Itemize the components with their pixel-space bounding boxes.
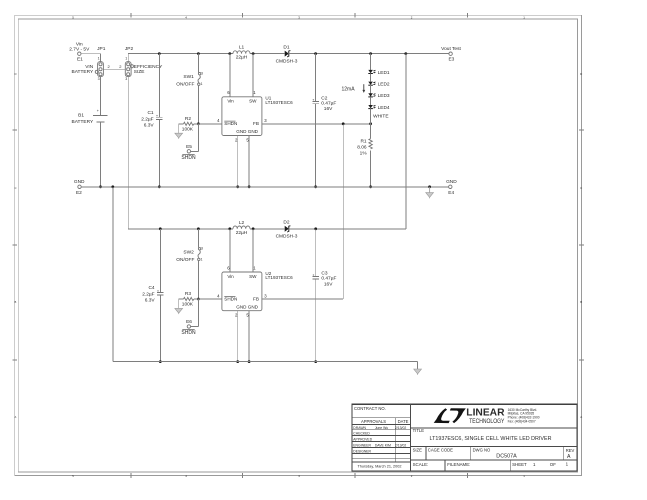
resistor R3 100K: [179, 291, 199, 308]
wire U2 SW pin1: [252, 229, 254, 272]
wire JP1 pin2 to JP2 pin2: [103, 64, 125, 69]
svg-text:SHDN: SHDN: [181, 155, 196, 161]
svg-text:SW1: SW1: [183, 74, 194, 80]
ground arrow below R3: [175, 299, 183, 314]
inductor L2 22uH: [233, 220, 250, 236]
svg-text:E1: E1: [77, 56, 83, 62]
svg-text:R1: R1: [360, 139, 366, 145]
svg-text:LED3: LED3: [378, 93, 390, 99]
svg-text:16V: 16V: [324, 281, 333, 287]
svg-text:SHDN: SHDN: [224, 296, 237, 301]
capacitor C4 2.2uF: [142, 285, 163, 303]
svg-text:LED2: LED2: [378, 82, 390, 88]
svg-text:1: 1: [201, 257, 203, 261]
svg-text:Fax: (408)434-0507: Fax: (408)434-0507: [508, 419, 536, 423]
svg-text:ON/OFF: ON/OFF: [176, 257, 194, 263]
svg-text:C3: C3: [321, 271, 327, 277]
wire gnd tie upper to lower: [112, 187, 114, 362]
svg-text:22µH: 22µH: [236, 55, 248, 61]
svg-text:GND: GND: [248, 129, 259, 134]
wire LED3-LED4: [370, 97, 372, 105]
wire L1 to D1: [250, 52, 285, 55]
wire SW2 branch top: [197, 229, 199, 248]
svg-text:SHDN: SHDN: [181, 330, 196, 336]
wire SW1 to R2 junction: [197, 85, 200, 125]
svg-text:GND: GND: [446, 179, 457, 185]
node E1 Vin terminal: [69, 41, 90, 62]
svg-text:3: 3: [201, 71, 203, 75]
wire LED2-LED3: [370, 85, 372, 93]
capacitor C2 0.47uF: [312, 95, 336, 112]
svg-text:B: B: [580, 300, 582, 304]
svg-text:L1: L1: [239, 45, 245, 51]
svg-text:D1: D1: [283, 44, 289, 50]
svg-text:JP2: JP2: [125, 46, 134, 52]
LED1: [368, 70, 390, 76]
wire U2 pin2 to gnd: [236, 311, 239, 363]
svg-text:CMDSH-3: CMDSH-3: [276, 59, 298, 65]
svg-text:3: 3: [201, 247, 203, 251]
svg-text:1: 1: [98, 56, 100, 60]
svg-text:GND: GND: [248, 304, 259, 309]
switch SW2 ON/OFF: [176, 247, 203, 263]
svg-text:C: C: [14, 186, 16, 190]
svg-text:TECHNOLOGY: TECHNOLOGY: [469, 418, 505, 425]
svg-text:SHDN: SHDN: [224, 121, 237, 126]
svg-text:2.2µF: 2.2µF: [142, 292, 154, 298]
svg-text:LT1937ESC6: LT1937ESC6: [265, 100, 293, 105]
wire L2 to D2: [250, 227, 285, 230]
wire lower gnd rail: [113, 361, 418, 363]
wire SW1 branch top: [197, 54, 199, 73]
svg-text:A: A: [567, 454, 571, 460]
svg-text:CHECKED: CHECKED: [353, 432, 370, 436]
svg-text:2/13/02: 2/13/02: [395, 426, 406, 430]
svg-text:ENGINEER: ENGINEER: [353, 444, 371, 448]
op-amp U1 LT1937ESC6: [217, 90, 293, 142]
svg-text:OF: OF: [550, 462, 556, 467]
svg-text:CMDSH-3: CMDSH-3: [276, 234, 298, 240]
svg-text:E3: E3: [448, 57, 454, 63]
svg-text:APPROVALS: APPROVALS: [361, 419, 386, 424]
svg-text:1: 1: [201, 82, 203, 86]
svg-text:100K: 100K: [182, 302, 194, 308]
wire SHDN to U1 pin4: [198, 123, 222, 125]
svg-text:SHEET: SHEET: [512, 462, 527, 467]
wire FB node to R1: [370, 124, 372, 139]
wire C3 branch: [314, 229, 317, 363]
svg-text:6.3V: 6.3V: [145, 298, 156, 304]
svg-text:LT1937ESC6: LT1937ESC6: [265, 275, 293, 280]
svg-text:E5: E5: [186, 144, 192, 150]
svg-text:22µH: 22µH: [236, 230, 248, 236]
svg-text:SIZE: SIZE: [134, 69, 145, 75]
svg-text:E2: E2: [76, 190, 82, 196]
svg-text:D: D: [14, 72, 16, 76]
svg-text:GND: GND: [236, 129, 247, 134]
svg-text:100K: 100K: [182, 126, 194, 132]
svg-text:B1: B1: [78, 113, 84, 119]
wire R1 to gnd: [369, 150, 372, 188]
svg-text:0.47µF: 0.47µF: [321, 101, 336, 107]
svg-text:16V: 16V: [324, 106, 333, 112]
svg-text:E4: E4: [448, 190, 454, 196]
svg-text:Vout Test: Vout Test: [441, 46, 461, 52]
svg-text:GND: GND: [236, 304, 247, 309]
svg-text:12mA: 12mA: [341, 87, 355, 93]
svg-text:R3: R3: [185, 291, 191, 297]
svg-text:CONTRACT NO.: CONTRACT NO.: [354, 406, 386, 411]
resistor R1 8.06 1%: [357, 139, 372, 157]
LED2: [368, 82, 390, 88]
wire Vout down to lower rail: [405, 54, 407, 229]
svg-text:L2: L2: [239, 220, 245, 226]
svg-text:D: D: [580, 72, 582, 76]
node E3 Vout Test terminal: [441, 46, 461, 63]
wire SHDN to U2 pin4: [198, 298, 222, 300]
wire LED4 to FB node: [370, 109, 372, 124]
ground arrow below R2: [175, 124, 183, 139]
svg-text:LED1: LED1: [378, 70, 390, 76]
svg-text:SIZE: SIZE: [413, 448, 423, 453]
svg-text:A: A: [580, 415, 582, 419]
svg-text:SCALE:: SCALE:: [413, 462, 429, 467]
wire top rail JP2 to L1: [128, 52, 233, 55]
svg-text:LINEAR: LINEAR: [466, 408, 504, 419]
svg-text:0.47µF: 0.47µF: [321, 276, 336, 282]
svg-text:C: C: [580, 186, 582, 190]
svg-text:LED4: LED4: [378, 105, 390, 111]
wire battery to gnd rail: [99, 122, 102, 188]
svg-text:2/13/02: 2/13/02: [395, 444, 406, 448]
svg-text:in: in: [230, 274, 234, 279]
svg-text:FB: FB: [253, 121, 259, 126]
wire U1 Vin pin6: [229, 54, 231, 97]
node E4 GND terminal: [446, 179, 457, 196]
wire D1 to E3 rail: [289, 52, 449, 55]
switch SW1 ON/OFF: [176, 71, 203, 87]
wire U2 pin5 to gnd: [248, 311, 251, 363]
svg-text:R2: R2: [185, 116, 191, 122]
svg-text:DESIGNER: DESIGNER: [353, 450, 371, 454]
wire R2 junction to E5: [191, 124, 199, 152]
op-amp U2 LT1937ESC6: [217, 265, 293, 317]
svg-text:2.2µF: 2.2µF: [141, 116, 153, 122]
wire U1 FB to LED string: [262, 122, 372, 125]
svg-text:C1: C1: [147, 110, 153, 116]
LED4 WHITE: [368, 105, 390, 120]
svg-text:1: 1: [125, 56, 127, 60]
svg-text:JP1: JP1: [97, 46, 106, 52]
svg-text:REV: REV: [566, 448, 575, 453]
svg-text:Vin: Vin: [76, 41, 83, 47]
svg-text:A: A: [14, 415, 16, 419]
svg-text:8.06: 8.06: [357, 145, 367, 151]
svg-text:in: in: [230, 99, 234, 104]
svg-text:B: B: [14, 300, 16, 304]
svg-text:D2: D2: [283, 220, 289, 226]
svg-text:6.3V: 6.3V: [144, 122, 155, 128]
wire C2 branch: [314, 54, 317, 189]
wire U2 FB riser to upper FB: [262, 124, 343, 299]
node E5 SHDN terminal: [181, 144, 196, 161]
svg-text:DC507A: DC507A: [496, 453, 517, 459]
svg-text:ON/OFF: ON/OFF: [176, 82, 194, 88]
Linear Technology logo: [434, 408, 540, 426]
capacitor C3 0.47uF: [312, 271, 336, 288]
svg-text:WHITE: WHITE: [373, 114, 388, 120]
svg-text:C2: C2: [321, 95, 327, 101]
svg-text:3: 3: [98, 77, 100, 81]
svg-text:3: 3: [125, 77, 127, 81]
ground arrow lower right: [414, 362, 422, 375]
wire U1 pin5 to gnd: [248, 136, 251, 189]
diode D2 CMDSH-3: [276, 220, 298, 240]
wire R3 junction to E6: [191, 299, 199, 327]
svg-text:TITLE: TITLE: [413, 428, 425, 433]
wire E1 to JP1 pin1: [81, 54, 100, 62]
svg-text:BATTERY: BATTERY: [72, 69, 94, 75]
capacitor C1 2.2uF: [141, 110, 162, 128]
svg-text:BATTERY: BATTERY: [72, 119, 94, 125]
svg-text:APPROVED: APPROVED: [353, 438, 372, 442]
svg-text:CAGE CODE: CAGE CODE: [428, 448, 453, 453]
wire SW2 to R3 junction: [197, 261, 200, 301]
svg-text:VIN: VIN: [85, 64, 94, 70]
inductor L1 22uH: [233, 45, 250, 61]
wire LED1-LED2: [370, 73, 372, 81]
battery B1: [72, 109, 108, 125]
wire JP2 pin1 up to top rail: [127, 54, 129, 62]
wire C4 branch: [159, 229, 162, 363]
svg-text:LT1937ESC6, SINGLE CELL WHITE: LT1937ESC6, SINGLE CELL WHITE LED DRIVER: [430, 436, 552, 442]
LED3: [368, 93, 390, 99]
svg-text:SW: SW: [249, 99, 257, 104]
node E2 GND terminal: [74, 179, 85, 196]
title block: [352, 404, 577, 471]
wire U2 Vin pin6: [229, 229, 231, 272]
svg-text:1%: 1%: [360, 151, 368, 157]
svg-text:DRAWN: DRAWN: [353, 426, 366, 430]
svg-text:DWG NO: DWG NO: [473, 448, 491, 453]
jumper JP1: [72, 46, 106, 81]
svg-text:SW2: SW2: [183, 249, 194, 255]
svg-text:E6: E6: [186, 319, 192, 325]
wire LED string top: [370, 54, 372, 70]
resistor R2 100K: [179, 116, 199, 133]
svg-text:DAVE KIM: DAVE KIM: [375, 444, 391, 448]
wire C1 branch: [158, 54, 161, 189]
12mA current arrow: [341, 84, 365, 93]
wire U1 SW pin1: [252, 54, 254, 97]
svg-text:FB: FB: [253, 296, 259, 301]
node E6 SHDN terminal: [181, 319, 196, 336]
wire D2 to Vout riser: [289, 227, 406, 230]
diode D1 CMDSH-3: [276, 44, 298, 64]
wire JP1 pin3 to battery: [100, 77, 102, 116]
svg-text:EFFICIENCY: EFFICIENCY: [134, 64, 163, 70]
svg-text:DATE: DATE: [398, 419, 409, 424]
jumper JP2: [125, 46, 163, 81]
svg-text:SW: SW: [249, 274, 257, 279]
svg-text:FILENAME:: FILENAME:: [447, 462, 470, 467]
svg-text:GND: GND: [74, 179, 85, 185]
svg-text:June Wu: June Wu: [375, 426, 388, 430]
wire JP2 pin3 down to lower rail: [128, 77, 133, 229]
wire lower rail to L2: [133, 227, 233, 230]
ground arrow at E4: [426, 187, 434, 199]
svg-text:2.7V - 5V: 2.7V - 5V: [69, 46, 90, 52]
wire gnd rail: [81, 185, 448, 188]
svg-text:C4: C4: [148, 285, 154, 291]
svg-text:Thursday, March 21, 2002: Thursday, March 21, 2002: [357, 465, 401, 469]
wire U1 pin2 to gnd: [236, 136, 239, 189]
